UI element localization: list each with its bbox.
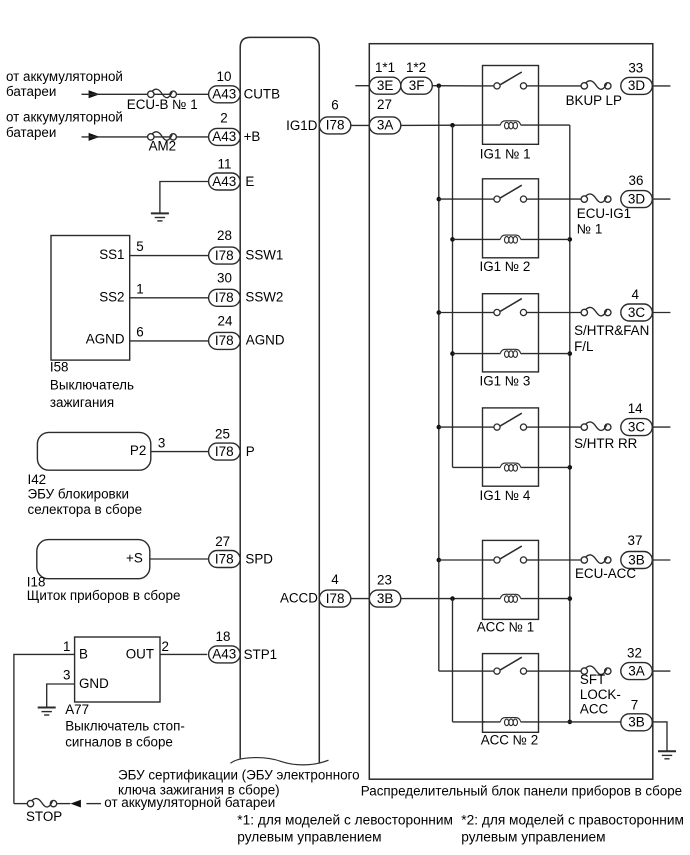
svg-text:батареи: батареи xyxy=(6,125,56,140)
wire: 3B pin 7 to ground xyxy=(652,722,667,751)
connector 3F pin 1*2 xyxy=(401,60,433,94)
svg-text:BKUP LP: BKUP LP xyxy=(566,93,622,108)
connector 3D pin 33 (output BKUP LP) xyxy=(621,60,653,94)
svg-text:I78: I78 xyxy=(326,591,345,606)
wire: battery feed 2 with arrow xyxy=(82,133,209,141)
pin label OUT (inside A77) xyxy=(126,647,154,662)
label: relay name IG1 № 4 xyxy=(480,488,531,503)
svg-text:27: 27 xyxy=(377,97,392,112)
wire: ACCD to 3B xyxy=(351,598,370,600)
wire: A77 OUT pin 2 to STP1 xyxy=(160,639,207,655)
label: circuit name S/HTR RR xyxy=(574,436,638,451)
connector A43 pin 2 (+B) xyxy=(209,110,241,145)
connector 3B pin 7 (coil ground) xyxy=(621,698,653,731)
svg-text:27: 27 xyxy=(215,534,230,549)
svg-text:AGND: AGND xyxy=(86,332,125,347)
wire: AGND wire, pin 6 xyxy=(130,325,209,341)
wire: coil return rail to ground xyxy=(568,125,573,724)
wire: output stub right of junction block (ECU-IG1 No1) xyxy=(652,198,670,200)
svg-text:IG1 № 1: IG1 № 1 xyxy=(480,147,531,162)
svg-text:AM2: AM2 xyxy=(149,139,177,154)
svg-text:3C: 3C xyxy=(628,419,646,434)
svg-text:1*1: 1*1 xyxy=(375,60,395,75)
svg-text:2: 2 xyxy=(220,110,227,125)
label: relay name IG1 № 3 xyxy=(480,374,531,389)
pin label SSW1 xyxy=(245,247,283,262)
connector I78 pin 27 (SPD) xyxy=(209,551,241,568)
pin label +B xyxy=(244,129,261,144)
switch I58 box: ignition switch xyxy=(51,236,130,361)
wire: relay switch output to fuse (S/HTR RR) xyxy=(539,426,582,428)
svg-text:сигналов в сборе: сигналов в сборе xyxy=(65,734,173,749)
wire: IG1 rail to relay IG1 No3 coil xyxy=(453,353,483,355)
connector 3C pin 14 (output S/HTR RR) xyxy=(621,401,653,435)
svg-text:30: 30 xyxy=(217,271,232,286)
svg-text:14: 14 xyxy=(628,401,643,416)
junction block J/B outline: instrument panel junction block box xyxy=(369,44,653,780)
svg-text:+B: +B xyxy=(244,129,261,144)
pin label +S (inside I18) xyxy=(126,550,143,565)
wire: +S to SPD, pin 27 xyxy=(150,534,230,559)
svg-text:SS1: SS1 xyxy=(99,247,124,262)
wire: switch feed rail (node B+) xyxy=(437,86,442,671)
pin label AGND xyxy=(246,332,285,347)
label: I58 Выключатель зажигания xyxy=(50,359,134,410)
fuse STOP xyxy=(27,798,56,806)
svg-text:ACCD: ACCD xyxy=(280,590,318,605)
svg-text:*1: для моделей с левосторонни: *1: для моделей с левосторонним xyxy=(237,813,453,828)
svg-text:3A: 3A xyxy=(377,118,394,133)
wire: relay switch output to fuse (ECU-IG1 No1) xyxy=(539,198,582,200)
wire: rail to relay ACC No2 switch xyxy=(439,670,483,672)
svg-text:3E: 3E xyxy=(377,78,394,93)
svg-text:рулевым управлением: рулевым управлением xyxy=(237,829,381,844)
pin label SPD xyxy=(245,551,273,566)
wire: relay ACC No1 coil to return rail xyxy=(539,598,570,600)
wire: relay switch output to fuse (ECU-ACC) xyxy=(539,559,582,561)
svg-text:зажигания: зажигания xyxy=(50,395,114,410)
wire: relay switch output to fuse (BKUP LP) xyxy=(539,85,582,87)
svg-text:36: 36 xyxy=(629,173,644,188)
ground G3 (junction block coil return) xyxy=(658,751,676,759)
label: I42 ЭБУ блокировки селектора в сборе xyxy=(28,472,143,517)
svg-text:S/HTR&FAN: S/HTR&FAN xyxy=(574,323,649,338)
wire: ACC rail to relay ACC No2 coil xyxy=(453,721,485,723)
svg-text:+S: +S xyxy=(126,550,143,565)
fuse ECU-ACC xyxy=(581,555,611,563)
svg-text:I78: I78 xyxy=(215,333,234,348)
svg-text:18: 18 xyxy=(216,629,231,644)
wire: A77 pin 3 to ground xyxy=(47,668,75,708)
svg-text:Распределительный блок панели: Распределительный блок панели приборов в… xyxy=(361,783,682,798)
pin label CUTB xyxy=(244,87,281,102)
svg-text:A43: A43 xyxy=(212,174,236,189)
wire: E pin to ground xyxy=(160,182,209,214)
svg-text:I78: I78 xyxy=(215,248,234,263)
svg-text:P2: P2 xyxy=(130,443,146,458)
pin label ACCD xyxy=(280,590,318,605)
svg-text:11: 11 xyxy=(218,157,232,172)
wire: SS2 to SSW2, pin 1 xyxy=(130,281,209,297)
svg-text:ECU-ACC: ECU-ACC xyxy=(575,566,636,581)
pin label GND (inside A77) xyxy=(79,676,109,691)
wire: relay IG1 No1 coil out to return rail xyxy=(539,124,570,126)
connector / ECU block U1: certification ECU tall rounded box xyxy=(240,37,319,763)
label: footnote *2 xyxy=(461,813,684,845)
relay ACC No1 xyxy=(483,540,539,619)
svg-text:ACC № 1: ACC № 1 xyxy=(477,620,535,635)
wire: relay IG1 No4 coil to return rail xyxy=(539,466,570,468)
svg-text:IG1D: IG1D xyxy=(286,118,318,133)
svg-text:ACC № 2: ACC № 2 xyxy=(481,733,539,748)
svg-text:B: B xyxy=(79,647,88,662)
svg-text:I78: I78 xyxy=(215,290,234,305)
label: footnote *1 xyxy=(237,813,453,845)
wire: output stub right of junction block (ECU-ACC) xyxy=(652,559,670,561)
svg-text:I58: I58 xyxy=(50,359,69,374)
wire: output stub right of junction block (SFT LOCK-ACC) xyxy=(652,670,670,672)
switch A77 box: stop light switch xyxy=(75,637,160,702)
pin label AGND (inside I58) xyxy=(86,332,125,347)
wire: P2 to P, pin 3 xyxy=(151,435,209,451)
svg-text:OUT: OUT xyxy=(126,647,154,662)
label: fuse name STOP xyxy=(26,809,62,824)
label: circuit name ECU-ACC xyxy=(575,566,636,581)
svg-text:рулевым управлением: рулевым управлением xyxy=(461,829,605,844)
svg-text:IG1 № 2: IG1 № 2 xyxy=(480,259,531,274)
label: relay name IG1 № 2 xyxy=(480,259,531,274)
svg-text:1: 1 xyxy=(63,639,70,654)
svg-text:Выключатель: Выключатель xyxy=(50,378,134,393)
label: circuit name BKUP LP xyxy=(566,93,622,108)
connector 3A pin 27 (junction block input) xyxy=(369,97,401,134)
svg-text:A43: A43 xyxy=(212,647,236,662)
svg-text:селектора в сборе: селектора в сборе xyxy=(28,502,143,517)
pin label P2 (inside I42) xyxy=(130,443,146,458)
gauge I18 box: combination meter xyxy=(37,540,150,579)
label: relay name ACC № 1 xyxy=(477,620,535,635)
svg-text:SSW1: SSW1 xyxy=(245,247,283,262)
svg-text:ACC: ACC xyxy=(580,702,609,717)
pin label STP1 xyxy=(244,647,278,662)
svg-text:ECU-IG1: ECU-IG1 xyxy=(577,206,631,221)
wire: 3F to relay IG1 No1 switch xyxy=(432,84,482,89)
wire: IG1 coil rail xyxy=(450,125,455,467)
label: ЭБУ сертификации caption xyxy=(118,768,360,798)
fuse S/HTR RR xyxy=(581,422,611,430)
svg-text:S/HTR RR: S/HTR RR xyxy=(574,436,638,451)
pin label E xyxy=(245,174,254,189)
connector 3A pin 32 (output SFT LOCK-ACC) xyxy=(621,646,653,680)
svg-text:GND: GND xyxy=(79,676,109,691)
wire: IG1D to 3A xyxy=(351,124,370,126)
svg-text:4: 4 xyxy=(331,572,339,587)
svg-text:LOCK-: LOCK- xyxy=(580,687,621,702)
connector 3B pin 23 (junction block input) xyxy=(369,572,401,607)
connector A43 pin 11 (E) xyxy=(209,157,241,191)
fuse AM2 xyxy=(148,132,177,140)
pin label SS1 (inside I58) xyxy=(99,247,124,262)
svg-text:3A: 3A xyxy=(628,663,645,678)
wire: stop fuse feed line xyxy=(14,800,101,808)
svg-text:ЭБУ сертификации (ЭБУ электрон: ЭБУ сертификации (ЭБУ электронного xyxy=(118,768,360,783)
connector A43 pin 18 (STP1) xyxy=(209,629,241,663)
fuse S/HTR&FAN F/L xyxy=(581,307,611,315)
relay ACC No2 xyxy=(483,654,539,733)
wire: relay IG1 No3 coil to return rail xyxy=(539,353,570,355)
svg-text:28: 28 xyxy=(217,228,232,243)
relay IG1 No1 xyxy=(483,66,539,145)
label: от аккумуляторной батареи (stop feed) xyxy=(104,795,275,810)
svg-text:STP1: STP1 xyxy=(244,647,278,662)
wire: output stub right of junction block (S/HTR RR) xyxy=(652,426,670,428)
connector I78 pin 30 (SSW2) xyxy=(209,271,241,307)
fuse ECU-B №1 xyxy=(148,89,177,97)
svg-text:1: 1 xyxy=(136,281,143,296)
svg-text:I42: I42 xyxy=(28,472,47,487)
connector I78 pin 25 (P) xyxy=(209,427,241,461)
wire: battery feed 1 with arrow xyxy=(82,90,209,98)
svg-text:F/L: F/L xyxy=(574,339,593,354)
wire: relay ACC No2 coil to return rail and 3B pin 7 xyxy=(539,721,621,723)
wire: IG1 rail to relay IG1 No4 coil xyxy=(453,466,483,468)
svg-text:I78: I78 xyxy=(215,444,234,459)
pin label IG1D xyxy=(286,118,318,133)
relay IG1 No4 xyxy=(483,408,539,486)
wire: stub into 3E xyxy=(355,85,369,87)
svg-text:Щиток приборов в сборе: Щиток приборов в сборе xyxy=(27,588,181,603)
svg-text:SS2: SS2 xyxy=(99,289,124,304)
svg-text:3B: 3B xyxy=(377,591,394,606)
label: relay name IG1 № 1 xyxy=(480,147,531,162)
wire: relay switch output to fuse (S/HTR&FAN F/L) xyxy=(539,312,582,314)
ground G1 (E pin) xyxy=(151,213,169,221)
svg-text:37: 37 xyxy=(628,533,643,548)
svg-text:4: 4 xyxy=(631,287,639,302)
svg-text:ЭБУ блокировки: ЭБУ блокировки xyxy=(28,487,130,502)
svg-text:10: 10 xyxy=(217,69,232,84)
label: Распределительный блок панели приборов в сборе xyxy=(361,783,682,798)
svg-text:от аккумуляторной: от аккумуляторной xyxy=(6,69,123,84)
wire: rail to relay IG1 No4 switch xyxy=(439,426,483,428)
fuse ECU-IG1 No1 xyxy=(581,194,611,202)
svg-text:№ 1: № 1 xyxy=(577,222,603,237)
fuse BKUP LP xyxy=(581,81,611,89)
svg-text:5: 5 xyxy=(136,239,143,254)
wire: rail to relay IG1 No3 switch xyxy=(439,312,483,314)
svg-text:AGND: AGND xyxy=(246,332,285,347)
svg-text:IG1 № 3: IG1 № 3 xyxy=(480,374,531,389)
connector I78 pin 28 (SSW1) xyxy=(209,228,241,264)
svg-text:A43: A43 xyxy=(212,129,236,144)
svg-text:батареи: батареи xyxy=(6,84,56,99)
svg-text:33: 33 xyxy=(628,60,643,75)
svg-text:P: P xyxy=(246,444,255,459)
relay IG1 No3 xyxy=(483,294,539,372)
svg-text:3C: 3C xyxy=(628,305,646,320)
connector I78 pin 6 (IG1D) xyxy=(319,97,351,133)
connector A43 pin 10 (CUTB) xyxy=(209,69,241,103)
svg-text:3: 3 xyxy=(158,435,165,450)
svg-text:6: 6 xyxy=(136,325,143,340)
label: circuit name ECU-IG1 No1 xyxy=(577,206,631,236)
svg-text:от аккумуляторной батареи: от аккумуляторной батареи xyxy=(104,795,275,810)
ground G2 (A77) xyxy=(38,708,56,716)
wire: ACC coil rail xyxy=(452,599,454,722)
wire: 3A to IG1 coil rail and relay IG1 No1 coil xyxy=(401,123,483,128)
svg-text:6: 6 xyxy=(331,97,338,112)
pin label SSW2 xyxy=(245,290,283,305)
svg-text:25: 25 xyxy=(215,427,230,442)
label: circuit name SFT LOCK-ACC xyxy=(580,672,621,717)
label: circuit name S/HTR&FAN F/L xyxy=(574,323,649,354)
wire: relay IG1 No2 coil to return rail xyxy=(539,238,570,240)
svg-text:SFT: SFT xyxy=(580,672,605,687)
svg-text:32: 32 xyxy=(627,646,642,661)
wire: output stub right of junction block (BKUP LP) xyxy=(652,85,670,87)
wire: 3B to ACC coil rail and relay ACC No1 coil xyxy=(401,596,485,601)
label: fuse name AM2 xyxy=(149,139,177,154)
svg-text:3D: 3D xyxy=(628,191,646,206)
connector 3E pin 1*1 xyxy=(369,60,401,94)
label: relay name ACC № 2 xyxy=(481,733,539,748)
svg-text:3D: 3D xyxy=(628,78,646,93)
pin label P xyxy=(246,444,255,459)
wire: rail to relay ACC No1 switch xyxy=(439,559,483,561)
svg-text:23: 23 xyxy=(377,572,392,587)
svg-text:3: 3 xyxy=(63,668,70,683)
svg-text:CUTB: CUTB xyxy=(244,87,281,102)
svg-text:SSW2: SSW2 xyxy=(245,290,283,305)
wire: rail to relay IG1 No2 switch xyxy=(439,198,483,200)
connector 3B pin 37 (output ECU-ACC) xyxy=(621,533,653,568)
connector I78 pin 4 (ACCD) xyxy=(319,572,351,607)
svg-text:7: 7 xyxy=(631,698,638,713)
svg-text:SPD: SPD xyxy=(245,551,273,566)
svg-text:3F: 3F xyxy=(409,78,425,93)
label: A77 Выключатель стоп-сигналов в сборе xyxy=(65,702,185,749)
svg-text:Выключатель стоп-: Выключатель стоп- xyxy=(65,719,185,734)
svg-text:IG1 № 4: IG1 № 4 xyxy=(480,488,531,503)
wire: wavy break line at bottom of certification ECU box xyxy=(231,758,329,765)
fuse SFT LOCK-ACC xyxy=(581,666,611,674)
svg-text:ECU-B № 1: ECU-B № 1 xyxy=(127,97,198,112)
svg-text:1*2: 1*2 xyxy=(406,60,426,75)
svg-text:A77: A77 xyxy=(65,702,89,717)
connector 3D pin 36 (output ECU-IG1 No1) xyxy=(621,173,653,207)
wire: A77 pin 1 feed from stop fuse line xyxy=(14,639,75,804)
svg-text:A43: A43 xyxy=(212,87,236,102)
pin label SS2 (inside I58) xyxy=(99,289,124,304)
ECU I42 box: selector lock ECU xyxy=(37,432,150,470)
label: I18 Щиток приборов в сборе xyxy=(27,574,181,603)
svg-text:24: 24 xyxy=(218,314,233,329)
svg-text:*2: для моделей с правосторонн: *2: для моделей с правосторонним xyxy=(461,813,684,828)
svg-text:I78: I78 xyxy=(326,118,345,133)
wire: relay switch output to fuse (SFT LOCK-ACC) xyxy=(539,670,582,672)
wire: IG1 rail to relay IG1 No2 coil xyxy=(453,238,483,240)
svg-text:E: E xyxy=(245,174,254,189)
svg-text:2: 2 xyxy=(162,639,169,654)
label: от аккумуляторной батареи (feed 1) xyxy=(6,69,123,99)
label: от аккумуляторной батареи (feed 2) xyxy=(6,110,123,141)
relay IG1 No2 xyxy=(483,179,539,258)
label: fuse name ECU-B № 1 xyxy=(127,97,198,112)
wire: output stub right of junction block (S/HTR&FAN F/L) xyxy=(652,312,670,314)
connector I78 pin 24 (AGND) xyxy=(209,314,241,350)
wire: SS1 to SSW1, pin 5 xyxy=(130,239,209,255)
svg-text:от аккумуляторной: от аккумуляторной xyxy=(6,110,123,125)
svg-text:3B: 3B xyxy=(628,715,645,730)
pin label B (inside A77) xyxy=(79,647,88,662)
svg-text:STOP: STOP xyxy=(26,809,62,824)
connector 3C pin 4 (output S/HTR&FAN F/L) xyxy=(621,287,653,321)
svg-text:I78: I78 xyxy=(215,551,234,566)
